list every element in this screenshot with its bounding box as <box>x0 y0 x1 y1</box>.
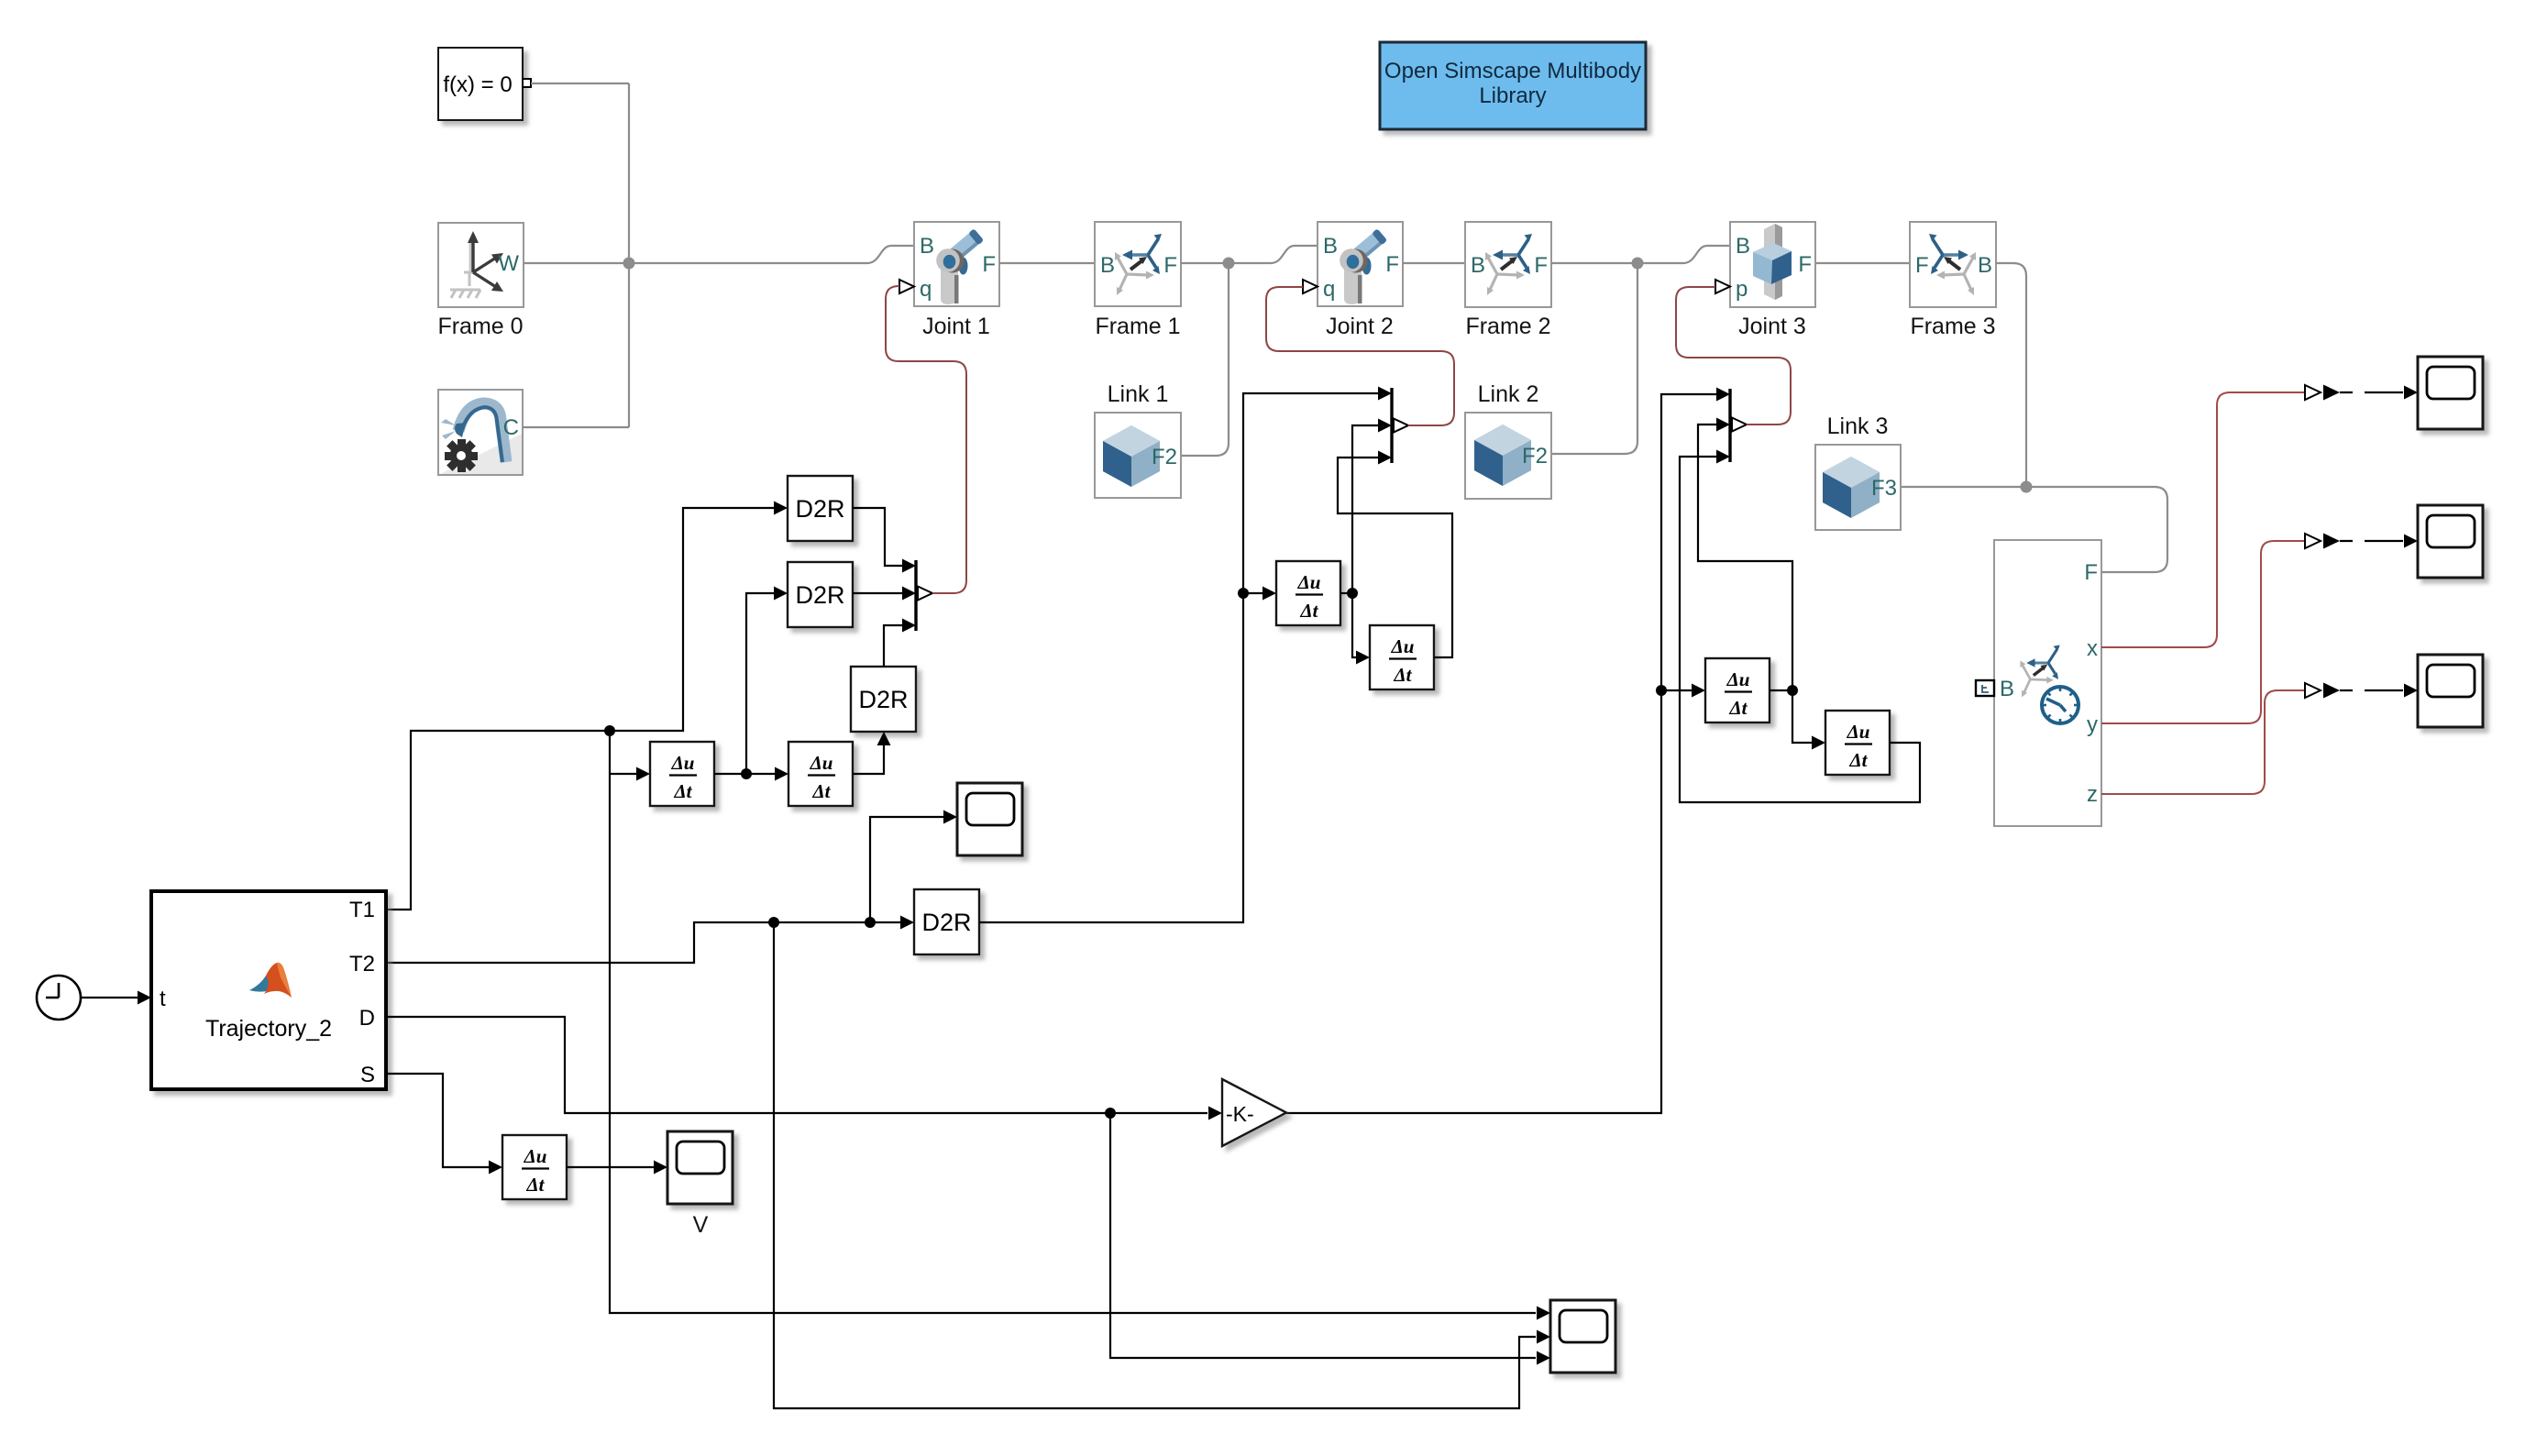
svg-text:Trajectory_2: Trajectory_2 <box>205 1016 332 1042</box>
junction node T1 <box>604 725 615 736</box>
junction node W <box>623 258 635 270</box>
svg-text:z: z <box>2087 782 2098 807</box>
block derivative mid 1 (du/dt) <box>1276 561 1340 625</box>
wire derivative V to scope V <box>567 1166 654 1168</box>
svg-text:x: x <box>2087 636 2098 661</box>
junction node cluster 3 <box>1656 685 1667 696</box>
wire Frame 1 F to Joint 2 B <box>1181 246 1318 263</box>
block Frame 1 (rigid transform) <box>1095 222 1181 306</box>
arrow into bottom scope port 1 <box>1537 1307 1550 1320</box>
junction node after Frame 2 <box>1632 258 1644 270</box>
svg-text:W: W <box>498 251 519 276</box>
svg-text:Link 3: Link 3 <box>1827 414 1889 439</box>
svg-text:y: y <box>2087 712 2098 737</box>
svg-text:q: q <box>920 277 932 302</box>
wire red sensor x to converter 1 <box>2101 392 2304 647</box>
arrow up into D2R 3 <box>877 732 891 745</box>
svg-text:F: F <box>1915 253 1929 278</box>
svg-text:B: B <box>1736 234 1750 259</box>
wire branch into derivative mid 1 <box>1243 592 1262 594</box>
wire branch into derivative 5 <box>1661 689 1692 691</box>
wire down to derivative mid 2 <box>1352 593 1356 657</box>
block scope (bottom right, 3 inputs) <box>1550 1300 1615 1373</box>
svg-text:T1: T1 <box>349 898 375 922</box>
block Frame 0 (world frame) <box>438 223 524 307</box>
arrow into bottom scope port 3 <box>1537 1351 1550 1365</box>
wire Joint 3 F to Frame 3 F <box>1816 262 1910 264</box>
wire T1 to D2R 1 <box>610 508 774 731</box>
wire node to sensor F <box>2026 487 2167 572</box>
block derivative 6 (du/dt) <box>1825 711 1890 775</box>
block Frame 2 (rigid transform) <box>1465 222 1551 307</box>
junction node Frame 3 / Link 3 / sensor <box>2021 481 2033 493</box>
svg-text:Link 2: Link 2 <box>1478 381 1539 407</box>
arrow mux 3 input 2 <box>1716 418 1730 432</box>
block derivative mid 2 (du/dt) <box>1370 625 1434 689</box>
block Link 2 <box>1465 413 1551 499</box>
wire D branch down to bottom scope port 3 <box>1110 1113 1536 1358</box>
mux 3 output port (hollow) <box>1732 418 1747 432</box>
port arrow q Joint 1 (hollow) <box>899 280 914 293</box>
arrow into derivative mid 1 <box>1262 587 1276 601</box>
svg-text:V: V <box>693 1212 709 1238</box>
wire vertical node column <box>628 83 630 427</box>
wire red mux 3 to Joint 3 p <box>1676 287 1791 425</box>
arrow into D2R 1 <box>774 502 788 515</box>
block derivative V (du/dt) <box>502 1135 567 1199</box>
svg-text:F: F <box>1798 252 1812 277</box>
wire branch up to D2R 2 <box>746 593 774 774</box>
wire derivative 5 output <box>1770 689 1792 691</box>
converter 3 (hollow + filled arrow) <box>2305 683 2321 698</box>
converter 2 (hollow + filled arrow) <box>2305 534 2321 548</box>
arrow into D2R 4 <box>900 916 914 930</box>
svg-text:Frame 0: Frame 0 <box>437 314 523 339</box>
svg-text:B: B <box>2000 677 2014 701</box>
mux 1 output port (hollow) <box>918 587 932 601</box>
svg-text:T2: T2 <box>349 952 375 976</box>
wire Mechanism Configuration C to node <box>523 426 629 428</box>
block clock <box>37 976 81 1020</box>
converter 1 (hollow + filled arrow) <box>2305 385 2321 400</box>
port arrow p Joint 3 (hollow) <box>1715 280 1730 293</box>
arrow into derivative V <box>489 1161 502 1175</box>
wire red sensor y to converter 2 <box>2101 541 2304 723</box>
wire node to Link 1 F2 <box>1181 263 1229 456</box>
svg-text:Library: Library <box>1479 83 1546 108</box>
arrow into derivative 2 <box>775 767 788 781</box>
block D2R 1 (degrees to radians) <box>788 476 853 541</box>
wire derivative mid 2 to mux 2 bottom <box>1338 458 1452 657</box>
arrow mux 1 input 3 <box>902 619 916 633</box>
wire D2R 1 to mux 1 top <box>853 508 902 566</box>
arrow into Trajectory_2 t <box>138 991 151 1005</box>
arrow mux 1 input 2 <box>902 587 916 601</box>
block derivative 1 (du/dt) <box>650 742 714 806</box>
wire D2R 3 to mux 1 bottom <box>884 625 902 667</box>
svg-text:-K-: -K- <box>1226 1102 1254 1126</box>
svg-text:B: B <box>920 234 934 259</box>
wire derivative 1 to derivative 2 <box>714 773 775 775</box>
arrow into middle scope <box>943 811 957 824</box>
svg-text:Joint 3: Joint 3 <box>1738 314 1806 339</box>
mux 2 output port (hollow) <box>1394 419 1408 433</box>
arrow mux 2 input 3 <box>1378 451 1392 465</box>
svg-text:B: B <box>1323 234 1338 259</box>
arrow into scope 2 <box>2404 535 2418 548</box>
svg-text:p: p <box>1736 277 1748 302</box>
wire up to mux 3 middle <box>1698 425 1792 690</box>
block Transform Sensor <box>1976 540 2101 826</box>
junction node derivative 1 output <box>741 768 752 779</box>
wire derivative 6 to mux 3 bottom <box>1680 457 1920 802</box>
svg-text:B: B <box>1471 253 1485 278</box>
svg-text:q: q <box>1323 277 1335 302</box>
wire T2 branch down to bottom scope port 2 <box>774 922 1536 1408</box>
wire clock to Trajectory_2 t <box>81 997 138 998</box>
block gain -K- <box>1222 1079 1286 1146</box>
svg-text:Joint 1: Joint 1 <box>922 314 990 339</box>
svg-text:Frame 2: Frame 2 <box>1465 314 1550 339</box>
wire S to derivative V <box>386 1074 489 1167</box>
block derivative 2 (du/dt) <box>788 742 853 806</box>
wire T1 riser to node <box>386 731 610 910</box>
svg-text:Joint 2: Joint 2 <box>1326 314 1394 339</box>
wire node to Link 2 F2 <box>1551 263 1637 454</box>
wire Joint 1 F to Frame 1 B <box>999 262 1095 264</box>
wire D2R 4 to mux 2 top <box>979 393 1378 922</box>
svg-text:f(x) = 0: f(x) = 0 <box>443 72 512 97</box>
svg-text:S: S <box>360 1063 375 1087</box>
mux 3 bar <box>1728 389 1731 462</box>
wire node to Link 3 F3 <box>1900 486 2026 488</box>
wire converter 3 to scope 3 <box>2340 689 2403 691</box>
block subsystem Trajectory_2 <box>151 891 386 1089</box>
block scope 1 <box>2418 357 2483 429</box>
junction node cluster 2 <box>1238 588 1249 599</box>
block D2R 3 <box>851 667 916 732</box>
arrow mux 2 input 2 <box>1378 419 1392 433</box>
block Link 1 <box>1095 413 1181 498</box>
junction node derivative 5 output <box>1787 685 1798 696</box>
svg-text:F: F <box>1163 253 1177 278</box>
svg-text:F: F <box>982 252 996 277</box>
wire down to derivative 6 <box>1792 690 1812 743</box>
block scope (middle) <box>957 783 1022 855</box>
arrow mux 3 input 1 <box>1716 388 1730 402</box>
block scope V <box>667 1131 733 1204</box>
svg-text:F3: F3 <box>1871 476 1897 501</box>
arrow into derivative 1 <box>636 767 650 781</box>
block D2R 4 <box>914 889 979 954</box>
arrow into bottom scope port 2 <box>1537 1330 1550 1344</box>
wire f(x)=0 to node <box>531 83 629 84</box>
arrow into gain <box>1208 1107 1222 1120</box>
arrow mux 2 input 1 <box>1378 387 1392 401</box>
wire converter 2 to scope 2 <box>2340 540 2403 542</box>
wire branch into derivative 1 <box>610 773 636 775</box>
block scope 2 <box>2418 505 2483 578</box>
svg-text:Open Simscape Multibody: Open Simscape Multibody <box>1384 59 1641 83</box>
svg-text:F: F <box>2084 560 2098 585</box>
port arrow q Joint 2 (hollow) <box>1303 280 1318 293</box>
wire derivative 2 up to D2R 3 <box>853 745 884 774</box>
junction node derivative mid 1 output <box>1347 588 1358 599</box>
block scope 3 <box>2418 655 2483 727</box>
wire converter 1 to scope 1 <box>2340 392 2403 393</box>
wire T2 to D2R 4 <box>386 922 900 963</box>
arrow into derivative 6 <box>1812 736 1825 750</box>
arrow into D2R 2 <box>774 587 788 601</box>
wire derivative mid 1 output <box>1340 592 1352 594</box>
wire branch up to middle scope <box>870 817 943 922</box>
wire up to mux 2 middle <box>1352 425 1378 593</box>
block Mechanism Configuration <box>438 390 523 475</box>
svg-text:B: B <box>1100 253 1115 278</box>
junction node T2 branch <box>768 917 779 928</box>
wire D2R 2 to mux 1 middle <box>853 592 902 594</box>
arrow into scope 3 <box>2404 684 2418 698</box>
block Frame 3 (rigid transform mirrored) <box>1910 222 1996 307</box>
svg-text:F: F <box>1385 252 1399 277</box>
junction node scope branch <box>865 917 876 928</box>
arrow mux 1 input 1 <box>902 559 916 573</box>
svg-text:B: B <box>1978 253 1992 278</box>
block D2R 2 <box>788 562 853 627</box>
wire Frame 3 B down to node <box>1996 263 2026 487</box>
wire Frame 2 F to Joint 3 B <box>1551 246 1730 263</box>
svg-text:F2: F2 <box>1152 445 1177 469</box>
block Solver Configuration f(x)=0 <box>438 48 531 120</box>
block Link 3 <box>1815 445 1901 530</box>
arrow mux 3 input 3 <box>1716 450 1730 464</box>
arrow into derivative 5 <box>1692 684 1705 698</box>
wire T1 node down to scope <box>610 731 1536 1313</box>
svg-text:F2: F2 <box>1522 444 1548 469</box>
mux 1 bar <box>914 560 917 631</box>
arrow into derivative mid 2 <box>1356 651 1370 665</box>
svg-text:Link 1: Link 1 <box>1108 381 1169 407</box>
wire gain output to mux 3 top <box>1286 394 1716 1113</box>
wire Frame 0 W to Joint 1 B <box>524 246 914 263</box>
wire Joint 2 F to Frame 2 B <box>1403 262 1465 264</box>
wire red sensor z to converter 3 <box>2101 690 2304 794</box>
wire red mux 1 to Joint 1 q <box>886 286 966 593</box>
svg-text:F: F <box>1534 253 1548 278</box>
block Joint 2 (revolute) <box>1318 222 1403 306</box>
arrow into scope 1 <box>2404 386 2418 400</box>
mux 2 bar <box>1390 388 1393 463</box>
svg-text:Frame 1: Frame 1 <box>1095 314 1180 339</box>
svg-text:C: C <box>503 415 519 440</box>
wire D to gain <box>386 1017 1207 1113</box>
junction node D branch <box>1105 1108 1116 1119</box>
block Joint 1 (revolute) <box>914 222 999 306</box>
arrow into scope V <box>654 1161 667 1175</box>
svg-text:t: t <box>160 987 166 1011</box>
block Joint 3 (prismatic) <box>1730 222 1815 307</box>
svg-text:Frame 3: Frame 3 <box>1910 314 1995 339</box>
junction node after Frame 1 <box>1223 258 1235 270</box>
block derivative 5 (du/dt) <box>1705 658 1770 722</box>
button Open Simscape Multibody Library <box>1380 42 1646 129</box>
wire red mux 2 to Joint 2 q <box>1266 287 1454 425</box>
svg-text:D: D <box>359 1006 375 1031</box>
